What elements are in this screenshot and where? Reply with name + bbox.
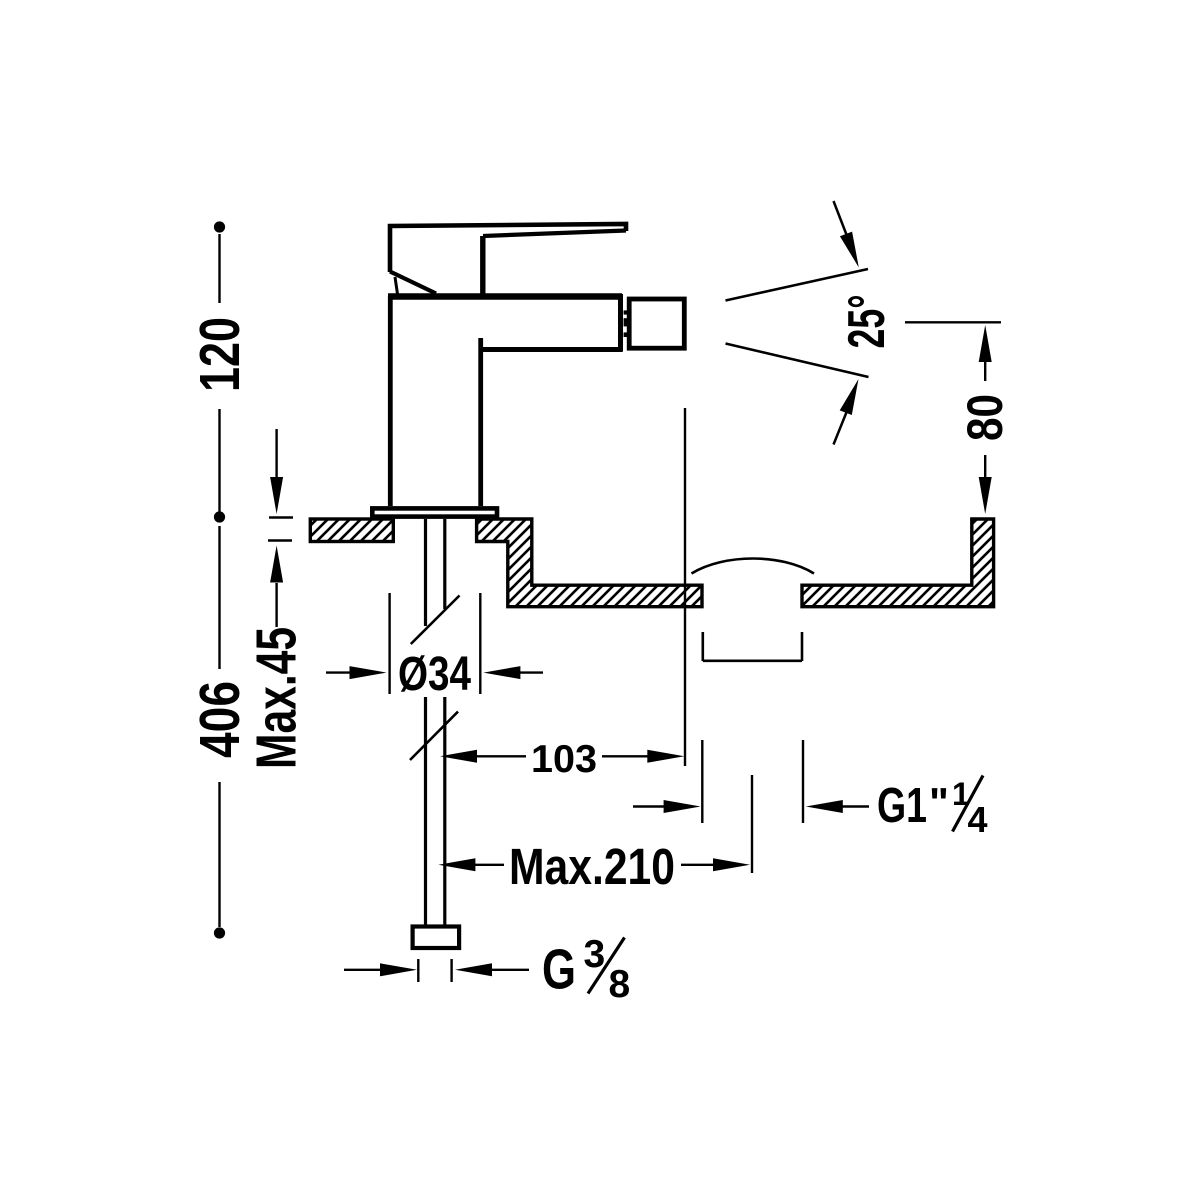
supply pipe right line bbox=[443, 519, 446, 609]
svg-text:Max.45: Max.45 bbox=[244, 627, 308, 769]
drain bracket below counter bbox=[703, 632, 802, 661]
pipe break slash upper bbox=[411, 596, 460, 645]
G 3/8 right arrowhead bbox=[455, 963, 492, 976]
aerator square bbox=[629, 299, 684, 348]
80 up arrowhead bbox=[979, 325, 992, 362]
countertop left section bbox=[310, 519, 393, 542]
svg-text:120: 120 bbox=[188, 317, 252, 392]
diameter 34 dimension bbox=[326, 593, 543, 694]
G1 1/4 dimension arrows bbox=[633, 805, 666, 807]
dimension dot bottom bbox=[214, 927, 225, 938]
Max.210 dimension bbox=[473, 864, 504, 866]
hose nut bbox=[413, 927, 460, 949]
103 left arrowhead bbox=[440, 750, 477, 763]
spray cone upper arrow bbox=[834, 201, 848, 236]
faucet base plate bbox=[372, 508, 497, 516]
dimension dot middle bbox=[214, 511, 225, 522]
svg-text:G: G bbox=[542, 938, 576, 1002]
spray cone upper line bbox=[726, 269, 869, 301]
supply pipe left line bbox=[424, 519, 427, 626]
faucet handle bbox=[390, 224, 626, 296]
spray cone lower arrow bbox=[834, 411, 848, 445]
countertop middle step section bbox=[477, 519, 702, 607]
G 3/8 left arrowhead bbox=[380, 963, 417, 976]
svg-text:": " bbox=[929, 779, 949, 826]
drain right extension line bbox=[802, 740, 804, 823]
drain centre extension line bbox=[751, 775, 753, 873]
svg-text:Max.210: Max.210 bbox=[509, 838, 675, 895]
spray cone lower line bbox=[726, 344, 869, 378]
G1 1/4 left arrowhead bbox=[664, 800, 701, 813]
Max.45 down arrowhead bbox=[270, 477, 283, 514]
pipe break slash lower bbox=[410, 712, 458, 760]
countertop right section bbox=[802, 519, 994, 607]
svg-text:25°: 25° bbox=[838, 295, 896, 349]
G 3/8 dimension bbox=[344, 959, 529, 982]
svg-text:Ø34: Ø34 bbox=[398, 648, 471, 701]
aerator nipple bbox=[624, 310, 630, 337]
G1 1/4 right arrowhead bbox=[806, 800, 843, 813]
svg-text:406: 406 bbox=[188, 681, 252, 758]
drain dome arc bbox=[692, 559, 815, 574]
diameter 34 left arrowhead bbox=[350, 666, 387, 679]
svg-text:8: 8 bbox=[609, 963, 631, 1006]
Max.45 up arrowhead bbox=[270, 546, 283, 583]
Max.210 right arrowhead bbox=[713, 858, 750, 871]
svg-text:4: 4 bbox=[968, 799, 988, 840]
103 dimension bbox=[475, 755, 526, 757]
svg-text:G1: G1 bbox=[877, 779, 927, 833]
svg-text:103: 103 bbox=[531, 738, 597, 781]
spout reference extension line bbox=[684, 408, 686, 766]
80 dimension bbox=[905, 321, 1001, 323]
faucet body and spout bbox=[388, 294, 623, 506]
Max.45 dimension bbox=[268, 429, 293, 627]
svg-text:80: 80 bbox=[957, 394, 1013, 441]
diameter 34 right arrowhead bbox=[483, 666, 520, 679]
drain left extension line bbox=[701, 740, 703, 823]
Max.210 left arrowhead bbox=[438, 858, 475, 871]
103 right arrowhead bbox=[647, 750, 684, 763]
80 down arrowhead bbox=[979, 477, 992, 514]
left overall dimension line bbox=[218, 234, 220, 927]
dimension dot top bbox=[214, 221, 225, 232]
